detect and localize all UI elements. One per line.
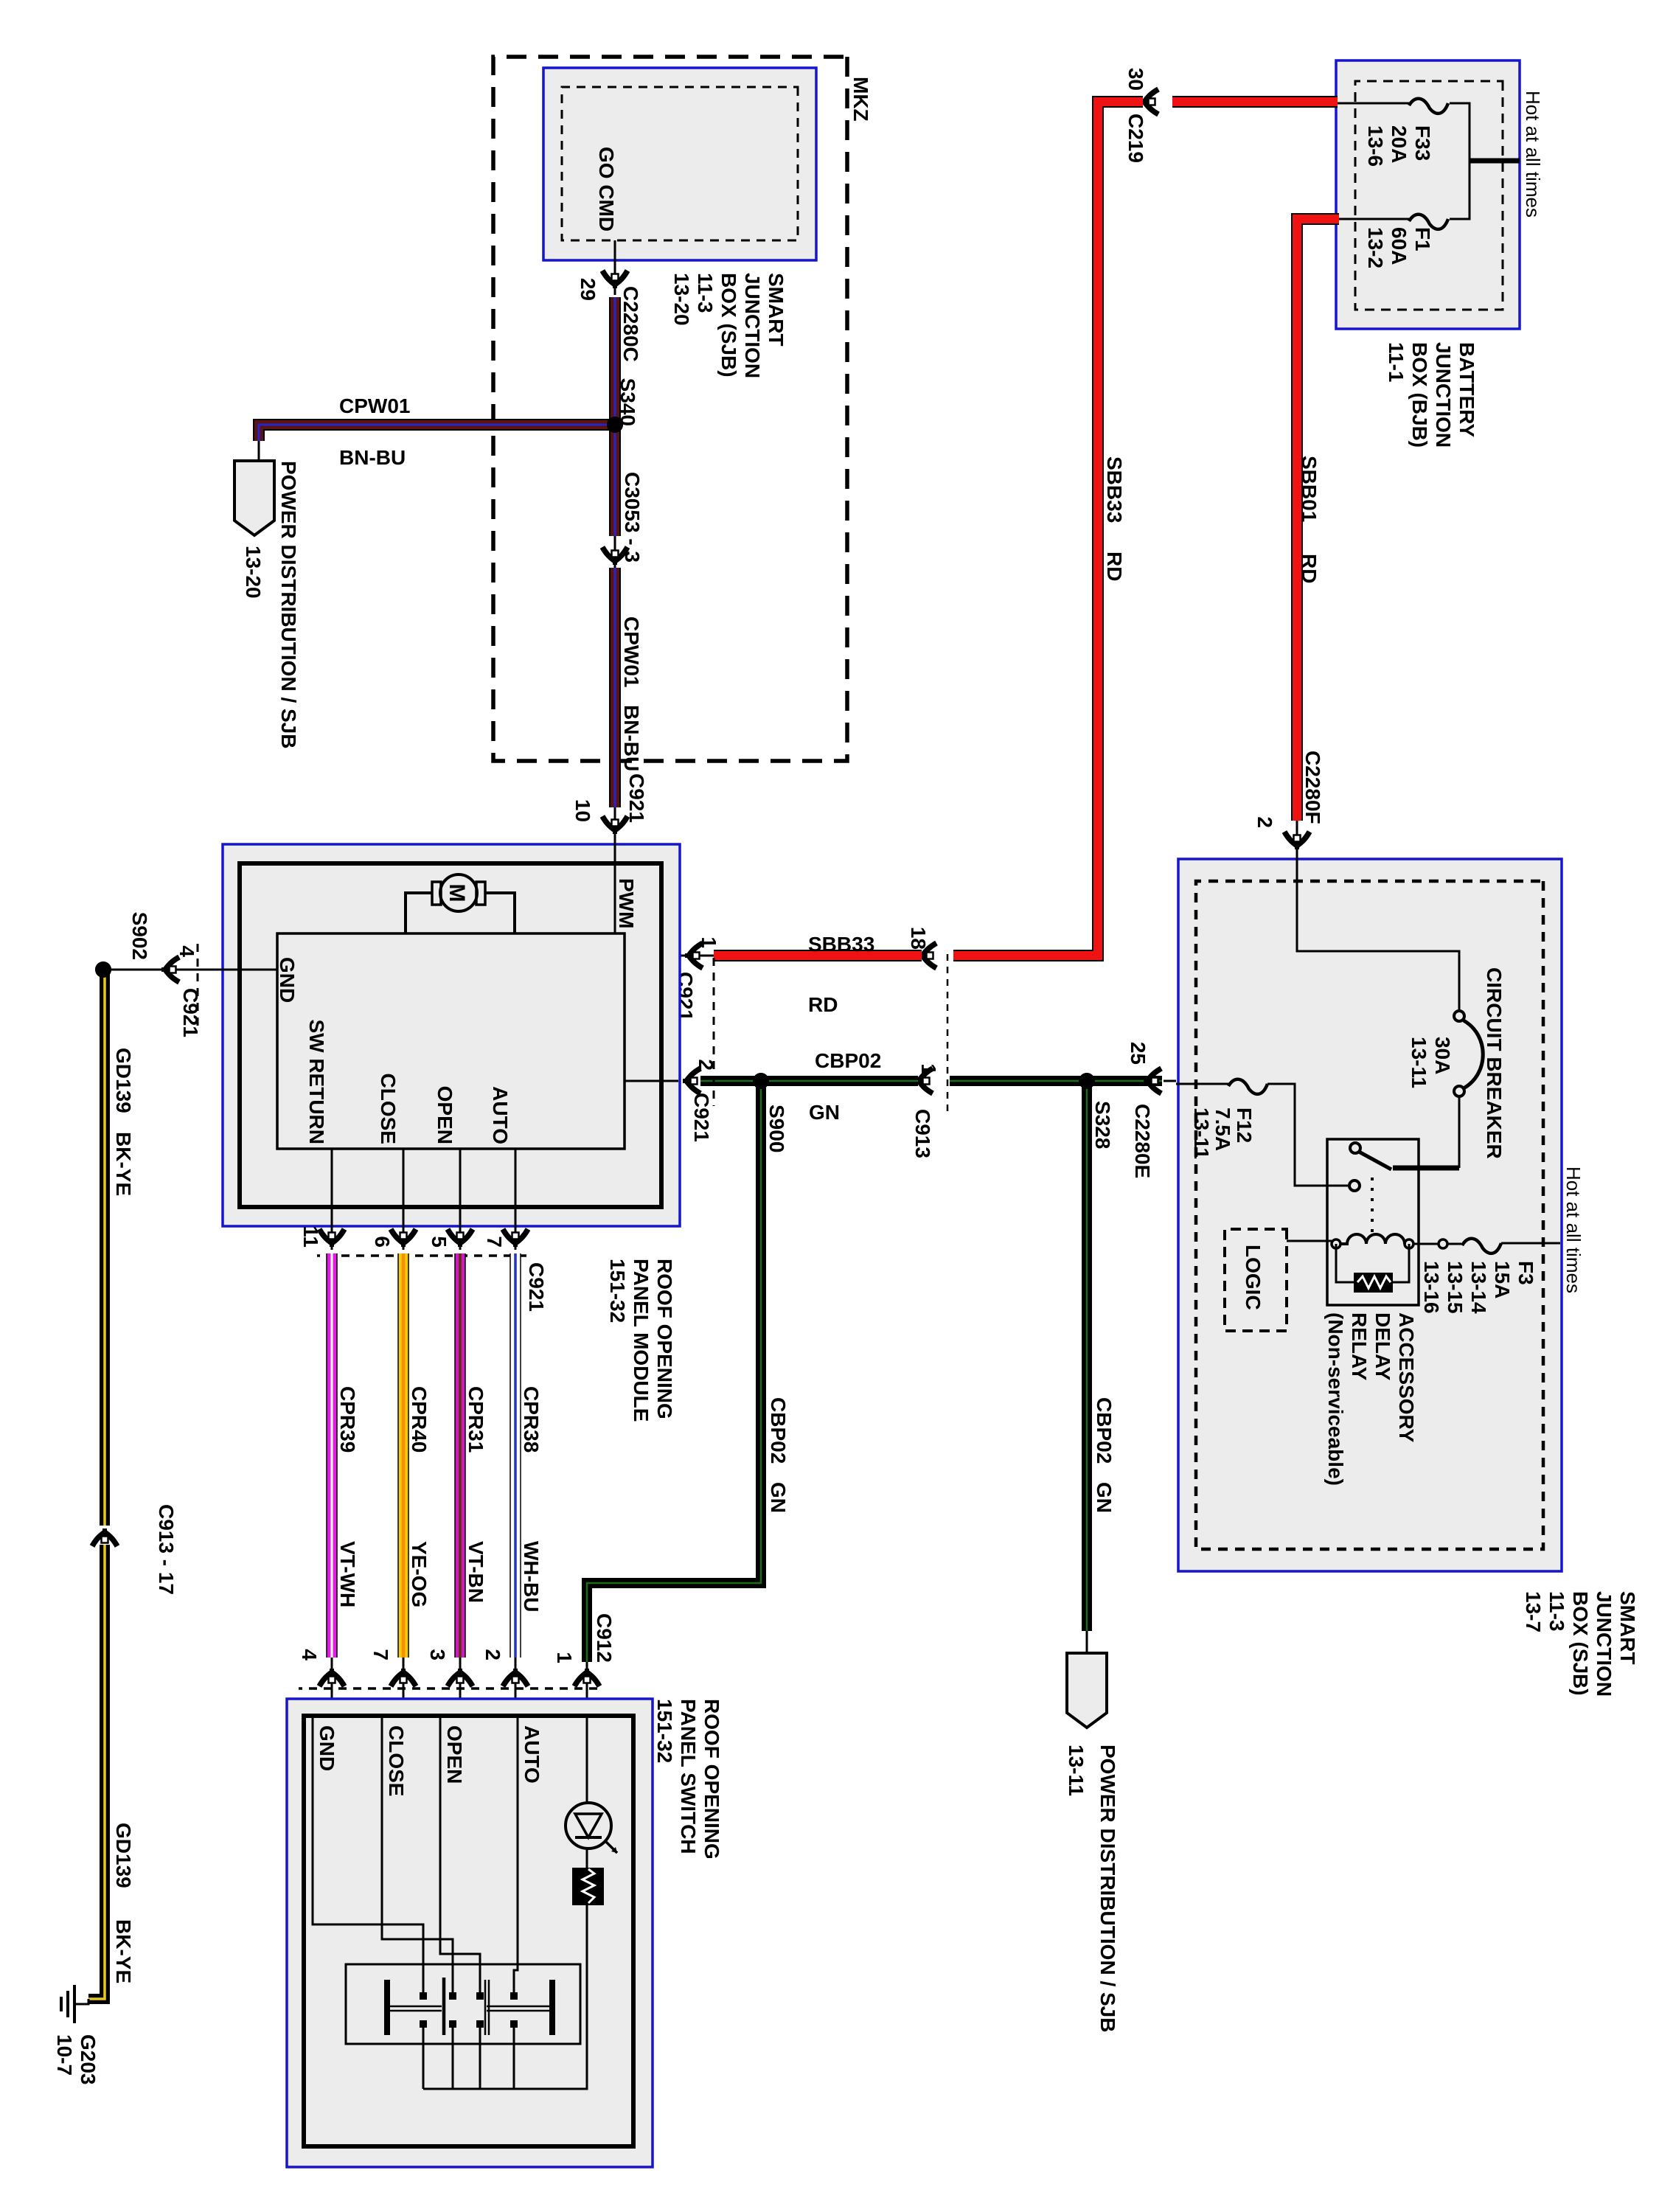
svg-text:6: 6 [371, 1236, 394, 1248]
connector C3053-3 [602, 547, 627, 565]
svg-text:11: 11 [299, 1225, 322, 1248]
svg-text:GND: GND [316, 1725, 338, 1771]
splice S900 [753, 1073, 769, 1089]
svg-text:30: 30 [1124, 68, 1147, 91]
svg-text:(Non-serviceable): (Non-serviceable) [1324, 1312, 1347, 1486]
svg-text:13-14: 13-14 [1467, 1261, 1490, 1314]
svg-text:GN: GN [1093, 1482, 1116, 1513]
GO CMD module box [543, 68, 816, 260]
connector C921 pin 10 [602, 816, 627, 834]
svg-text:C2280C: C2280C [619, 286, 642, 362]
wire motor to inner box [485, 893, 515, 933]
C912 dashed (switch input) [299, 1687, 597, 1690]
svg-text:13-2: 13-2 [1364, 227, 1387, 268]
svg-text:11-3: 11-3 [1545, 1591, 1568, 1632]
wire BJB internal [1450, 103, 1470, 219]
svg-text:2: 2 [1253, 816, 1276, 828]
svg-text:CLOSE: CLOSE [377, 1074, 400, 1144]
svg-text:VT-WH: VT-WH [336, 1541, 359, 1607]
contact feed stubs (right) [513, 2025, 515, 2089]
svg-text:13-16: 13-16 [1420, 1261, 1443, 1314]
wire CBP02 to SJB pin 25 [1087, 1076, 1143, 1086]
svg-text:18: 18 [907, 927, 930, 950]
svg-text:C921: C921 [690, 1093, 713, 1142]
svg-text:13-11: 13-11 [1065, 1745, 1088, 1796]
svg-text:VT-BN: VT-BN [465, 1541, 487, 1603]
svg-text:SBB01: SBB01 [1298, 456, 1321, 522]
battery junction box BJB [1336, 60, 1520, 329]
svg-text:PANEL MODULE: PANEL MODULE [630, 1259, 653, 1422]
connector C921 pin 4 [161, 957, 179, 982]
wire CPW01 BN-BU (C3053 to module pin 10) [609, 568, 621, 807]
svg-text:CPR38: CPR38 [520, 1386, 543, 1453]
wire GO CMD output stub [614, 240, 616, 295]
svg-text:CBP02: CBP02 [1093, 1397, 1116, 1464]
wire LED to resistor [586, 1848, 588, 1868]
power distribution arrow 13-20 [234, 461, 274, 535]
svg-text:25: 25 [1127, 1042, 1150, 1065]
svg-text:BOX (SJB): BOX (SJB) [717, 273, 740, 378]
svg-text:SW RETURN: SW RETURN [305, 1019, 328, 1144]
svg-text:CPR31: CPR31 [465, 1386, 487, 1453]
svg-text:S328: S328 [1091, 1101, 1114, 1149]
wire CPR40 YE-OG module pin 6 to switch pin 7 [403, 1149, 405, 1250]
connector C913-17 [92, 1528, 117, 1546]
svg-text:5: 5 [428, 1236, 451, 1248]
svg-text:BN-BU: BN-BU [620, 705, 643, 771]
fuse F1 60A [1409, 215, 1448, 229]
svg-text:10: 10 [571, 799, 594, 822]
svg-text:1: 1 [553, 1652, 576, 1663]
svg-text:WH-BU: WH-BU [520, 1541, 543, 1612]
fuse F12 7.5A [1228, 1079, 1267, 1094]
C913 dashed line [947, 954, 949, 1115]
svg-text:13-11: 13-11 [1408, 1037, 1430, 1088]
wire CPR31 VT-BN module pin 5 to switch pin 3 [459, 1149, 462, 1250]
svg-text:F33: F33 [1411, 125, 1434, 161]
wire NO contact to F12 [1267, 1084, 1349, 1186]
wire F3 to hot [1501, 1242, 1560, 1245]
svg-text:11-3: 11-3 [694, 273, 717, 313]
roof opening panel module box [223, 844, 680, 1226]
svg-text:13-7: 13-7 [1522, 1591, 1545, 1632]
LED indicator [566, 1803, 611, 1848]
svg-text:YE-OG: YE-OG [408, 1541, 431, 1607]
svg-text:1: 1 [917, 1063, 940, 1075]
svg-text:GN: GN [809, 1101, 840, 1124]
svg-text:RD: RD [1298, 554, 1321, 583]
svg-text:S900: S900 [765, 1105, 788, 1152]
svg-text:C921: C921 [625, 773, 648, 823]
svg-text:CPR39: CPR39 [336, 1386, 359, 1453]
connector 18 on SBB33 at C913 [919, 943, 936, 968]
svg-text:151-32: 151-32 [606, 1259, 629, 1323]
svg-text:ACCESSORY: ACCESSORY [1395, 1312, 1418, 1443]
svg-text:S902: S902 [128, 912, 151, 960]
wire CPW01 BN-BU (S340 to C3053) [609, 425, 621, 536]
svg-text:OPEN: OPEN [434, 1086, 456, 1144]
wire C2280F into SJB [1297, 852, 1459, 1011]
switch circuit lines [514, 1716, 518, 1992]
svg-text:4: 4 [175, 945, 198, 957]
svg-text:SBB33: SBB33 [1103, 456, 1126, 523]
svg-text:JUNCTION: JUNCTION [1432, 342, 1455, 448]
svg-text:C2280E: C2280E [1131, 1104, 1154, 1178]
svg-text:C219: C219 [1124, 114, 1147, 163]
svg-text:JUNCTION: JUNCTION [741, 273, 764, 378]
svg-text:Hot at all times: Hot at all times [1522, 91, 1544, 218]
svg-text:AUTO: AUTO [521, 1725, 543, 1784]
circuit breaker [1454, 1011, 1464, 1021]
connector C2280C pin 29 [602, 271, 627, 288]
wire CBP02 GN main (SJB to module pin 2) [950, 1076, 1162, 1086]
svg-text:G203: G203 [77, 2034, 100, 2085]
wire CPR39 VT-WH module pin 11 to switch pin 4 [331, 1149, 333, 1250]
wire resistor to contact rail [423, 1905, 587, 2089]
svg-text:MKZ: MKZ [849, 77, 872, 122]
svg-text:M: M [445, 884, 469, 902]
svg-text:C912: C912 [593, 1613, 616, 1663]
svg-text:C3053 - 3: C3053 - 3 [621, 472, 644, 563]
switch rocker contacts [384, 1980, 390, 2035]
svg-text:BATTERY: BATTERY [1455, 342, 1478, 437]
connector C912 pin 1 [586, 1662, 588, 1716]
svg-text:30A: 30A [1431, 1037, 1454, 1074]
power distribution arrow 13-11 [1067, 1653, 1107, 1728]
svg-text:AUTO: AUTO [489, 1086, 512, 1144]
svg-text:POWER DISTRIBUTION / SJB: POWER DISTRIBUTION / SJB [277, 461, 300, 748]
svg-text:DELAY: DELAY [1371, 1312, 1394, 1381]
svg-text:CBP02: CBP02 [815, 1049, 881, 1072]
svg-text:CPW01: CPW01 [339, 394, 410, 417]
relay actuation dotted [1371, 1178, 1374, 1235]
wire GD139 BK-YE (C913-17 to G203) [88, 1545, 105, 1999]
connector C921 pin 1 [685, 943, 703, 968]
C921 dashed (module output) [317, 1254, 526, 1257]
relay resistor [1392, 1244, 1409, 1282]
svg-text:PANEL SWITCH: PANEL SWITCH [677, 1699, 700, 1854]
svg-text:7.5A: 7.5A [1211, 1107, 1234, 1151]
splice S902 [95, 961, 111, 978]
svg-text:BK-YE: BK-YE [112, 1919, 135, 1983]
svg-text:151-32: 151-32 [653, 1699, 676, 1763]
wire CB to relay arm [1458, 1096, 1461, 1168]
svg-text:7: 7 [369, 1649, 392, 1660]
svg-text:GN: GN [767, 1482, 790, 1513]
svg-text:ROOF OPENING: ROOF OPENING [653, 1259, 676, 1419]
accessory delay relay [1327, 1139, 1419, 1305]
svg-text:POWER DISTRIBUTION / SJB: POWER DISTRIBUTION / SJB [1096, 1745, 1119, 2032]
svg-text:13-6: 13-6 [1364, 125, 1387, 167]
BJB supply stub [1470, 159, 1520, 164]
svg-text:15A: 15A [1491, 1261, 1514, 1298]
wire CPR38 WH-BU module pin 7 to switch pin 2 [515, 1149, 517, 1250]
wire CPW01 BN-BU (C2280C to S340) [609, 297, 621, 425]
svg-text:C921: C921 [525, 1262, 548, 1312]
wire F12 to pin 25 [1176, 1083, 1228, 1085]
svg-text:F1: F1 [1411, 227, 1434, 251]
svg-text:CPR40: CPR40 [408, 1386, 431, 1453]
connector 1 C913 on CBP02 [915, 1068, 933, 1093]
svg-text:2: 2 [481, 1649, 504, 1660]
svg-text:SBB33: SBB33 [808, 933, 874, 956]
svg-text:LOGIC: LOGIC [1242, 1245, 1265, 1310]
svg-text:11-1: 11-1 [1385, 342, 1408, 383]
svg-text:7: 7 [483, 1236, 506, 1248]
smart junction box SJB [1178, 859, 1562, 1571]
fuse F33 20A [1409, 99, 1448, 114]
svg-text:CLOSE: CLOSE [385, 1725, 408, 1796]
svg-text:SMART: SMART [1616, 1591, 1639, 1665]
splice S328 [1079, 1073, 1095, 1089]
wire CPW01 BN-BU branch to power distribution [259, 425, 615, 441]
svg-text:13-20: 13-20 [242, 546, 265, 599]
relay coil [1405, 1239, 1413, 1248]
MKZ dashed outline [493, 57, 847, 761]
ground G203 [74, 1999, 88, 2004]
svg-text:GD139: GD139 [112, 1048, 135, 1113]
svg-text:SMART: SMART [765, 273, 787, 347]
relay switch arm [1350, 1143, 1360, 1153]
wire GD139 BK-YE (S902 to C913-17) [100, 970, 110, 1526]
connector C2280E pin 25 [1144, 1068, 1161, 1093]
svg-text:BK-YE: BK-YE [112, 1132, 135, 1196]
svg-text:RELAY: RELAY [1348, 1312, 1371, 1381]
splice S340 [607, 417, 623, 433]
connector C219 pin 30 [1141, 89, 1158, 114]
wire CBP02 GN branch S900 to C912 [587, 1081, 761, 1662]
wire SBB01 RD from BJB to C2280F [1297, 219, 1339, 821]
svg-text:29: 29 [577, 278, 599, 301]
motor M [440, 874, 477, 911]
svg-text:CIRCUIT BREAKER: CIRCUIT BREAKER [1483, 967, 1506, 1159]
svg-text:F3: F3 [1514, 1261, 1537, 1285]
svg-text:RD: RD [808, 993, 838, 1016]
wire coil to F3 [1413, 1243, 1439, 1245]
wire CBP02 GN branch S328 to power distribution [1082, 1081, 1092, 1631]
svg-text:1: 1 [698, 936, 720, 948]
svg-text:CPW01: CPW01 [620, 616, 643, 687]
svg-text:10-7: 10-7 [53, 2034, 76, 2076]
wire pin10 to inner box (PWM) [614, 837, 616, 933]
svg-text:OPEN: OPEN [443, 1725, 466, 1784]
connector C921 pin 2 [683, 1068, 700, 1093]
svg-text:3: 3 [426, 1649, 449, 1660]
roof opening panel switch box [287, 1699, 653, 2167]
connector C2280F pin 2 [1296, 821, 1298, 858]
wire pin 2 stem [625, 1080, 678, 1082]
wire F1 to SBB01 [1338, 218, 1409, 220]
svg-text:PWM: PWM [615, 878, 638, 928]
svg-text:ROOF OPENING: ROOF OPENING [700, 1699, 723, 1860]
svg-text:F12: F12 [1233, 1107, 1256, 1143]
switch contact box [346, 1964, 580, 2044]
svg-text:CBP02: CBP02 [767, 1397, 790, 1464]
fuse F3 15A [1462, 1239, 1501, 1253]
svg-text:GD139: GD139 [112, 1823, 135, 1888]
svg-text:13-20: 13-20 [670, 273, 693, 326]
relay NO contact [1349, 1180, 1360, 1191]
svg-text:20A: 20A [1388, 125, 1411, 163]
wire SBB33 RD bus to C913 [953, 102, 1143, 956]
wire GND pin 4 [111, 969, 277, 971]
C921 dashed (pin4) [197, 944, 199, 1032]
wire module pin 1 stem [625, 955, 714, 957]
svg-text:GND: GND [276, 957, 299, 1003]
svg-text:JUNCTION: JUNCTION [1593, 1591, 1615, 1697]
wire LOGIC to coil [1287, 1240, 1332, 1242]
svg-text:4: 4 [298, 1649, 321, 1660]
svg-text:60A: 60A [1388, 227, 1411, 265]
svg-text:13-11: 13-11 [1190, 1107, 1213, 1159]
svg-text:Hot at all times: Hot at all times [1562, 1166, 1585, 1293]
LOGIC box [1225, 1229, 1287, 1331]
svg-text:RD: RD [1103, 552, 1126, 581]
splice dots redraw [607, 417, 623, 433]
wire SBB33 RD to module pin 1 [714, 950, 922, 961]
wire SBB33 RD from BJB to C219 [1172, 96, 1338, 108]
svg-text:BN-BU: BN-BU [339, 446, 406, 469]
svg-text:BOX (BJB): BOX (BJB) [1408, 342, 1431, 448]
svg-text:BOX (SJB): BOX (SJB) [1569, 1591, 1592, 1696]
svg-text:GO CMD: GO CMD [595, 147, 618, 232]
switch power line pin 1 [586, 1716, 588, 1803]
svg-text:C913: C913 [911, 1109, 934, 1158]
svg-text:13-15: 13-15 [1444, 1261, 1467, 1314]
C921 dashed (pins 1-2) [713, 958, 715, 1106]
switch resistor [572, 1868, 604, 1905]
svg-text:C913 - 17: C913 - 17 [155, 1504, 178, 1595]
wire F33 to SBB33 [1336, 102, 1409, 105]
svg-text:C2280F: C2280F [1301, 751, 1324, 824]
